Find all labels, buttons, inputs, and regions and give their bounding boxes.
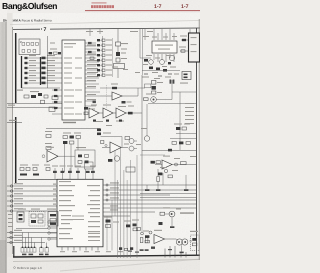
value labels for rows [29, 55, 55, 81]
vertical crossing wires [107, 147, 142, 259]
wire to shield box [181, 39, 188, 41]
node circle small [141, 232, 144, 235]
labels [174, 124, 182, 125]
photo input row 5 [97, 59, 100, 61]
schematic paper sheet [7, 13, 200, 257]
motor ground drop [181, 245, 183, 251]
labels [160, 167, 167, 168]
page background [0, 0, 200, 273]
wire motor [176, 239, 178, 240]
resistor 4R80 [160, 212, 165, 215]
wire in [155, 164, 162, 166]
shield box labels [191, 37, 197, 38]
right label column [185, 103, 194, 124]
capacitor pairs column x25 [25, 57, 28, 84]
resistor 4R56 [46, 147, 51, 150]
cluster label [163, 207, 170, 208]
vert resistor 4R94 [145, 238, 148, 243]
resistor 4R62 [101, 141, 104, 144]
op-amp 4IC2C [103, 108, 113, 118]
capacitor 4C35 [93, 101, 96, 104]
label [50, 49, 57, 50]
labels [132, 220, 139, 221]
small IC 2IC2 [48, 212, 58, 227]
small IC 2IC1 [17, 212, 24, 222]
IC4 right pin wires long bus [103, 185, 197, 216]
resistor 4R20 [88, 42, 92, 44]
comp 4C41 [122, 101, 126, 104]
photo input row 3 [97, 49, 100, 51]
entry label [8, 105, 15, 106]
wire x140 vertical [139, 29, 141, 58]
IC4 bottom pin stubs [62, 247, 98, 251]
resistor 4R65 [125, 137, 130, 140]
module parts [31, 214, 36, 218]
dashed connector box [191, 235, 200, 251]
resistor 4R36 [163, 69, 167, 72]
wire tr9 [134, 148, 137, 150]
wire y107 [7, 107, 58, 109]
wire [117, 46, 119, 52]
header red small text line 1 [92, 2, 107, 3]
wire tr8 join [134, 140, 137, 142]
labels [163, 156, 170, 157]
svg-text:Bang&Olufsen: Bang&Olufsen [2, 1, 57, 11]
IC 4IC4 body [57, 179, 103, 247]
ground 4GND3 [185, 175, 187, 189]
capacitor 4C43 [119, 120, 122, 122]
motor circle R [182, 239, 188, 245]
connector parts [192, 238, 197, 241]
right pin labels [110, 182, 119, 210]
label 2SD [17, 90, 23, 91]
wire y122 [7, 122, 22, 124]
stub wires from top rail [90, 29, 190, 40]
photo input row 7 [97, 69, 100, 71]
labels under top rail [86, 31, 153, 32]
capacitor 4C40 [93, 120, 96, 122]
inner left frame thick upper [15, 33, 17, 103]
bottom page diagonal edge [60, 259, 200, 271]
vert resistor 4R73 [157, 169, 159, 176]
row y63 wire [24, 62, 62, 64]
filter box [75, 150, 95, 167]
resistor 4R27 [152, 91, 156, 94]
wire column x47.5 [47, 36, 49, 88]
cap c65 [92, 168, 94, 179]
ground bar [170, 226, 174, 228]
bus y242 [7, 242, 45, 244]
resistor 4R35 [156, 68, 160, 71]
connector column labels lower-left [8, 214, 13, 227]
wire y103 [7, 103, 62, 105]
pin marks [53, 184, 56, 210]
feedback drop [121, 137, 123, 148]
wire down [117, 69, 119, 79]
ground bar A [140, 249, 144, 251]
dark comp [159, 222, 163, 225]
wire x142.5 upper [142, 29, 144, 75]
wire from top [117, 29, 119, 42]
bus labels [14, 230, 22, 231]
transistor 4TR8 [129, 139, 134, 144]
cluster upper right of IC4 [158, 167, 178, 185]
node circle [149, 231, 152, 234]
resistor 4R60 [70, 141, 74, 144]
filter parts [78, 155, 82, 158]
resistor 2R3 [52, 96, 58, 99]
wire y164.5 [172, 164, 197, 166]
capacitor 2C1 [38, 93, 42, 96]
wire D out [126, 112, 142, 114]
jumper squares row 2 [22, 50, 36, 53]
box on line y150 [168, 149, 172, 152]
resistor [168, 175, 172, 178]
wire y228 [16, 228, 48, 230]
bus y232 [7, 232, 57, 234]
label 4C35 [91, 105, 97, 106]
photo input row 4 [97, 54, 100, 56]
sheet top edge faint [10, 21, 200, 25]
shield connector box top-right [189, 33, 200, 62]
transistor 4TR4 [160, 60, 165, 65]
op-amp 4IC5A [110, 142, 121, 153]
wire y133 [176, 133, 197, 135]
labels [146, 55, 152, 56]
motor circle L [176, 239, 182, 245]
box top [126, 167, 135, 172]
top rail of IC4 [18, 178, 103, 180]
resistor 4R34 [149, 67, 153, 70]
photo input row 6 [97, 64, 100, 66]
labels [103, 133, 111, 134]
wire x180 down [179, 92, 181, 150]
resistor 4R12 [116, 52, 120, 56]
bus labels [14, 183, 23, 209]
diode 4D10 [119, 247, 122, 250]
resistor 4R41 [84, 107, 88, 110]
resistor 4R5 [49, 52, 53, 54]
left frame bottom corner [13, 246, 15, 257]
svg-text:1-7: 1-7 [181, 4, 189, 10]
labels [45, 131, 52, 132]
ground bar B [145, 249, 149, 251]
resistor 4R33 [144, 59, 148, 62]
IC1 right pin wires and components [85, 43, 100, 106]
label above conn box [190, 231, 198, 232]
bottom thick border [13, 255, 200, 257]
vertical drops [64, 144, 66, 172]
radial text label [180, 212, 194, 213]
resistor 4R31 [181, 50, 185, 52]
left small parts near opamp B [84, 107, 122, 122]
wire y128 [46, 128, 100, 130]
IC4 internal labels right side [87, 185, 100, 237]
cluster resistor 4R92 [137, 228, 141, 231]
resistor 2R2 [31, 95, 36, 98]
ground sym 3 [168, 73, 172, 75]
thick bus from P5 down [21, 56, 23, 88]
photo input row 8 [97, 74, 100, 76]
bottom-left corner shadow [0, 240, 6, 273]
capacitor 2C2 [44, 95, 48, 98]
label [127, 102, 132, 103]
small parts column x97 [97, 129, 101, 136]
page spine edge line [5, 22, 8, 273]
wire to shield box 2 [180, 50, 188, 52]
dark caps [20, 174, 27, 176]
resistor 4R22 [90, 57, 94, 59]
op-amp 4IC6A [162, 160, 172, 169]
wire y138 [170, 138, 197, 140]
row y78 wire [24, 77, 62, 79]
outer left thin border [12, 27, 14, 254]
connector box P5 [19, 39, 40, 55]
feedback wire [100, 87, 145, 89]
sensor rows bus vertical [112, 38, 114, 77]
transistor 4TR5 [144, 136, 149, 141]
resistor 4R21 [88, 51, 92, 53]
bottom stubs [165, 246, 186, 258]
label [180, 36, 187, 37]
left cluster caps [20, 168, 24, 171]
vertical drops [23, 233, 47, 248]
cap c66 [46, 168, 50, 171]
label [180, 83, 188, 84]
IC4 lower-left pins with circles [50, 222, 57, 239]
transistor 4TR7 [114, 156, 119, 161]
resistor 4R28 [144, 98, 149, 101]
right pin circles [106, 184, 108, 201]
resistor chain 4R25 [152, 81, 156, 85]
resistor 4R58 [63, 136, 67, 139]
wire y155 [140, 154, 165, 156]
ground sym 2 [158, 75, 162, 77]
transistor 4TR2 [151, 97, 157, 103]
resistor 4R6 [54, 52, 58, 54]
ground 4GND1 [146, 185, 148, 189]
transistor row under IC3 [140, 29, 180, 76]
bottom outer faint border [13, 260, 200, 262]
resistor [158, 173, 162, 176]
label [47, 147, 54, 148]
op-amp 4IC2D [116, 108, 126, 118]
right side bus line inner [196, 28, 198, 255]
in wire [102, 147, 110, 149]
row y83 wire [24, 82, 62, 84]
feedback node [164, 169, 167, 172]
coil box 4L1 [182, 72, 191, 80]
wire y103 [148, 103, 197, 105]
IC1 name label below [63, 122, 76, 123]
schematic outer top border with node 7 [13, 28, 40, 30]
wire y150 [142, 150, 197, 152]
wire opamp out [58, 155, 75, 157]
labels [124, 144, 129, 145]
cap c60 [54, 168, 56, 179]
op-amp 4IC5B [47, 151, 58, 163]
resistor 4R13 [116, 58, 120, 62]
label [50, 43, 55, 44]
wire tr2 out [157, 99, 172, 101]
input node [42, 155, 45, 158]
resistor 4R26 [152, 86, 156, 90]
cap pair 4C26 [170, 80, 172, 84]
wire y92 [172, 91, 197, 93]
wire out [165, 238, 177, 240]
cluster boxes [106, 220, 111, 223]
cap c61 [62, 168, 64, 179]
lower-left component cluster 2SD [7, 88, 62, 123]
capacitor 2C3 [41, 100, 45, 103]
wire up [146, 104, 148, 136]
svg-text:Refers to page 1-6: Refers to page 1-6 [17, 266, 42, 270]
IC3 bottom pin stubs [154, 54, 174, 62]
svg-text:7: 7 [44, 27, 47, 33]
divider chain x118 [112, 29, 140, 78]
out wire [121, 147, 128, 149]
photo input row 1 [97, 39, 100, 41]
dashed sense line [106, 85, 108, 108]
bus y237 [7, 237, 57, 239]
header red rule [85, 9, 200, 12]
wire x172 [171, 80, 173, 100]
paper noise overlay [0, 0, 200, 273]
thick mid bus x40 [40, 57, 42, 85]
label [179, 47, 186, 48]
marks below opamp [151, 247, 155, 249]
input rows with RC pairs to IC1 left pins [24, 58, 62, 83]
capacitor 4C6 [58, 52, 61, 54]
wire y70 [142, 70, 180, 72]
feedback resistor 4R40 [112, 87, 117, 89]
capacitor 4C46 [63, 141, 67, 144]
diode 4D11 [125, 248, 128, 250]
resistor 4R63 [108, 159, 112, 162]
IC4 internal pin labels left [59, 181, 100, 241]
opamp A wires [100, 95, 112, 97]
cap c64 [85, 169, 87, 179]
label [111, 84, 118, 85]
IC4 left pin bus wires [7, 186, 57, 211]
bottom margin [7, 255, 200, 273]
right-mid bus horizontals lower [140, 194, 197, 198]
label [141, 128, 147, 129]
jumper squares row 1 [22, 43, 38, 46]
IC 4IC3 body [152, 41, 177, 53]
opamp B out wire [99, 112, 103, 114]
svg-text:1-7: 1-7 [154, 4, 162, 10]
labels above [18, 209, 26, 210]
input node [105, 144, 107, 146]
labels [20, 165, 28, 166]
comp row [172, 142, 176, 145]
resistor 4R11 [116, 42, 121, 46]
label [124, 221, 131, 222]
resistor 4R55 [46, 135, 51, 138]
header red glyph text line 2 [91, 5, 114, 8]
junction wire y88 [22, 87, 61, 89]
dashed module box [29, 212, 45, 227]
resistor boxes column x42 [42, 57, 46, 85]
IC1 internal labels [64, 43, 82, 115]
resistor 2R1 [24, 95, 29, 98]
capacitor 4C45 [70, 136, 74, 139]
extra labels scatter top-right [142, 36, 179, 79]
diode 4D1 [168, 62, 171, 64]
label [76, 147, 86, 148]
bus pin circles [10, 185, 12, 212]
photo input row 2 [97, 44, 100, 46]
label [121, 58, 127, 59]
row y73 wire [24, 72, 62, 74]
resistor 4R70 [151, 161, 155, 164]
ground 4GND2 [157, 182, 159, 190]
labels [143, 231, 149, 232]
decoupling caps at IC1 lower left [54, 89, 57, 109]
IC3 internal labels [155, 45, 173, 46]
cluster boxes [176, 127, 180, 130]
wire down [162, 173, 164, 185]
svg-text:P: P [20, 40, 22, 44]
wire y214 [165, 213, 169, 215]
cap c63 [77, 168, 79, 179]
left scan shadow band [0, 14, 7, 273]
right side bus line outer [198, 19, 200, 260]
bottom test-point row [21, 248, 49, 253]
diode 4D12 [130, 247, 133, 250]
resistor 4R44 [128, 112, 133, 115]
ground marks [168, 249, 172, 250]
circle node [175, 163, 178, 166]
pot 4R14 [114, 64, 125, 69]
wire y58 [140, 57, 151, 59]
transistor 4TR1 [169, 55, 174, 60]
left inner margin strip [7, 13, 13, 257]
transistor 4TR9 [129, 146, 134, 151]
labels right of IC1 [87, 45, 98, 101]
comp [126, 225, 130, 228]
transistor 4TR3 [149, 60, 154, 65]
cluster resistor 4R91 [133, 224, 137, 227]
resistor 4R71 [156, 161, 160, 164]
labels [63, 133, 71, 134]
vertical wire x142 [141, 75, 143, 170]
below-frame tick marks [22, 254, 49, 256]
label [121, 43, 128, 44]
label [52, 58, 58, 59]
labels [157, 82, 163, 83]
capacitor 4C42 [106, 120, 109, 122]
IC1 left pins lower group [52, 90, 62, 114]
cluster left of IC1 [49, 43, 62, 59]
opamp input parts [145, 235, 149, 238]
labels around opamps [88, 105, 134, 123]
resistor 2R4 [49, 107, 55, 111]
resistor 4R59 [76, 136, 80, 139]
row y68 wire [24, 67, 62, 69]
labels [104, 217, 112, 218]
ground sym 1 [144, 73, 148, 75]
IC 4IC1 body [62, 40, 85, 120]
label cluster [30, 91, 39, 92]
op-amp 4IC2B [89, 108, 99, 118]
labels [176, 209, 181, 210]
feedback wire [101, 136, 123, 138]
opamp 4IC7 [154, 235, 165, 244]
entry label 2P1 [9, 120, 17, 121]
wire to conn [189, 240, 192, 242]
